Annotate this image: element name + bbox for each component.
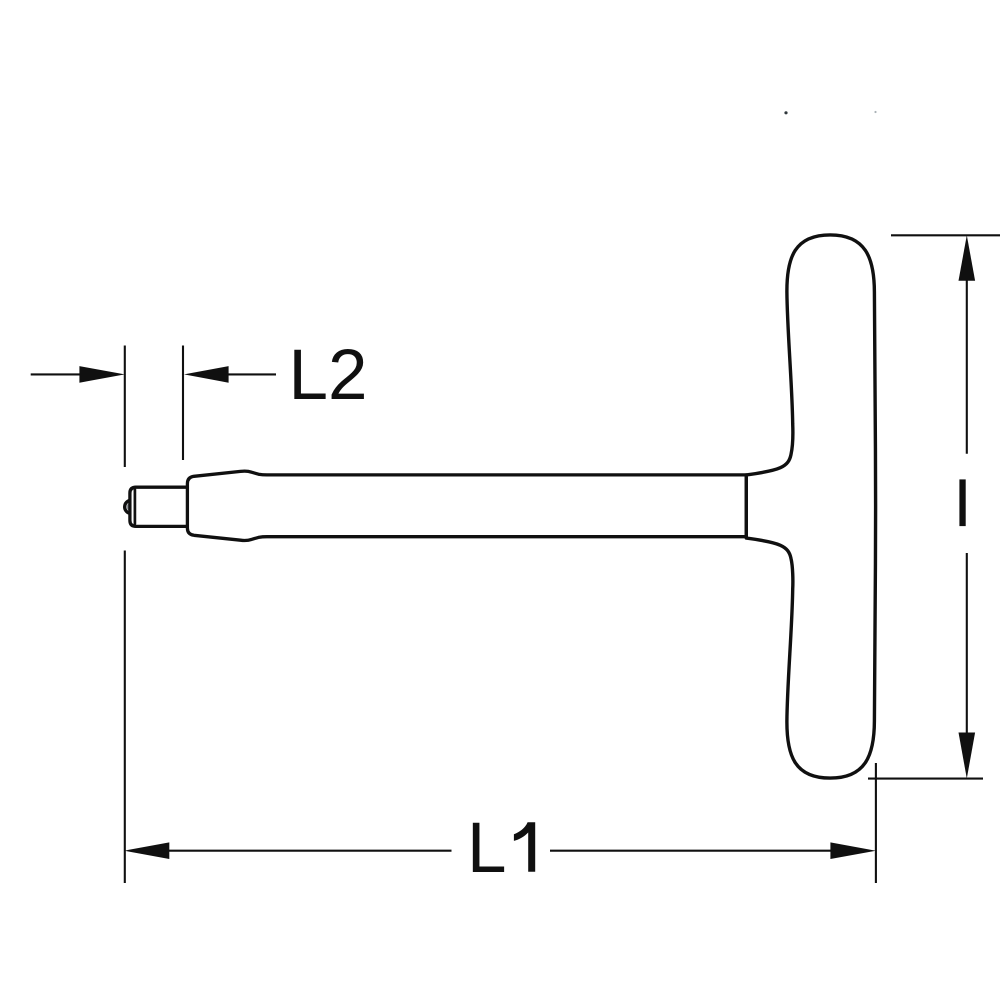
label I: [959, 479, 965, 526]
L1 dimension line right segment: [550, 850, 833, 852]
L2 arrow pointing right: [79, 366, 124, 383]
extension line I bottom: [868, 778, 983, 780]
svg-text:L: L: [467, 809, 507, 888]
extension line left (lower segment down to L1): [124, 551, 126, 884]
bit end chamfer line: [134, 490, 137, 524]
T-handle grip: [746, 235, 875, 778]
I arrow pointing up: [959, 235, 976, 280]
L1 dimension line left segment: [167, 850, 452, 852]
shaft with moulded sleeve (tapered grip collar): [187, 471, 746, 540]
L1 arrow pointing right: [830, 842, 876, 859]
L2 dimension line right tail: [227, 373, 276, 375]
L2 dimension line left tail: [31, 373, 81, 375]
I dimension line lower segment: [966, 553, 968, 735]
extension line L2 right: [182, 346, 184, 461]
I dimension line upper segment: [966, 278, 968, 454]
I arrow pointing down: [959, 733, 976, 779]
L1 arrow pointing left: [124, 842, 169, 859]
extension line left (shared by L2 and L1, upper segment): [124, 346, 126, 468]
ball end (detent ball on tip): [125, 500, 132, 513]
bit tip (square drive end): [130, 487, 188, 526]
extension line I top: [891, 234, 1000, 236]
stray dot left: [784, 111, 787, 114]
stray dot right: [874, 111, 876, 113]
svg-text:L2: L2: [289, 336, 368, 415]
L2 arrow pointing left: [184, 366, 229, 383]
extension line L1 right: [875, 763, 877, 883]
